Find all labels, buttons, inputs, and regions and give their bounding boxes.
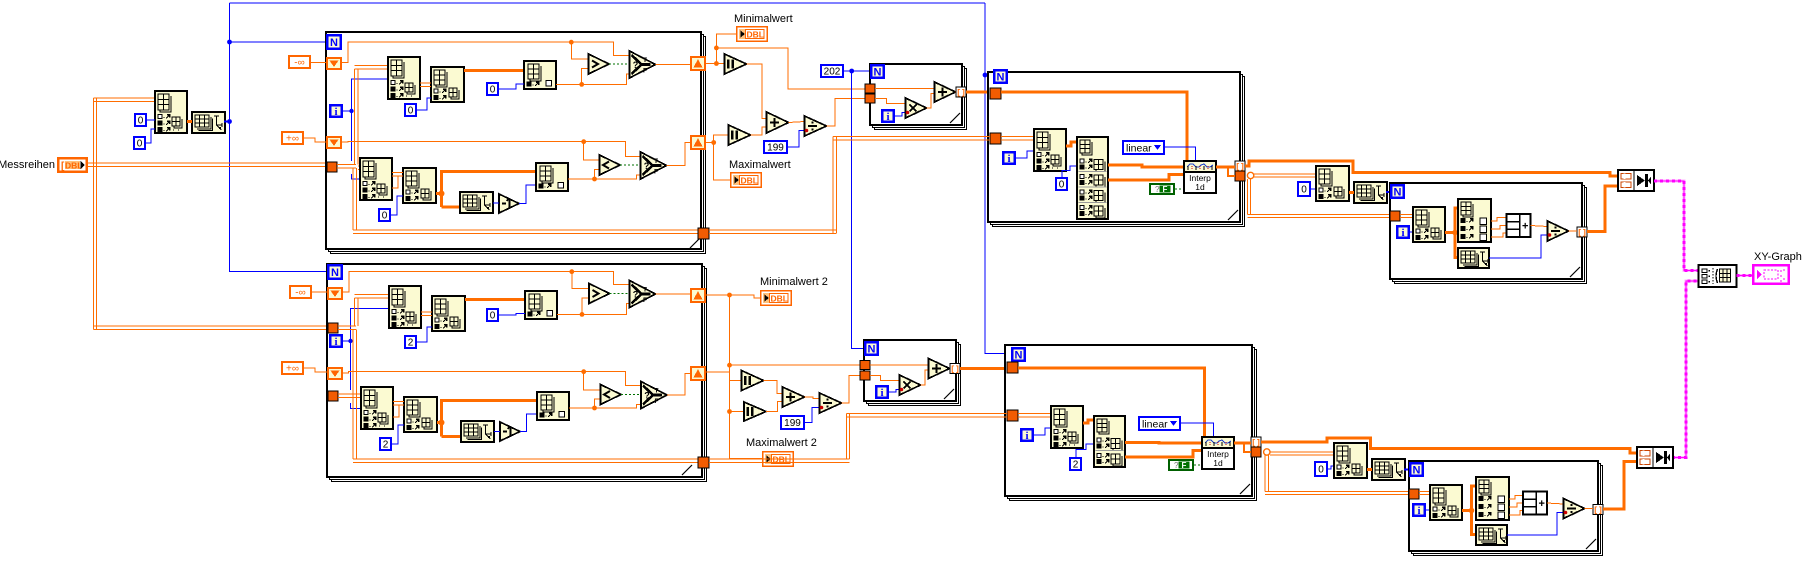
- select node select loop2 max: [641, 382, 667, 409]
- operator greater than loop1: [589, 54, 610, 74]
- wire row to sort 2: [442, 435, 462, 438]
- for-loop frame loop3 (x ramp series 1): [870, 64, 967, 130]
- tunnel loop2 array in2: [328, 391, 338, 401]
- svg-text:N: N: [868, 344, 876, 356]
- operator multiply loop3: [906, 98, 927, 118]
- label Maximalwert: [729, 159, 791, 171]
- svg-text:0: 0: [1318, 465, 1324, 476]
- label XY-Graph: [1754, 251, 1802, 263]
- loop count terminal N loop5: [1390, 184, 1405, 199]
- svg-text:i: i: [1417, 505, 1420, 517]
- wire 0 to idx5b: [1328, 466, 1334, 469]
- compound arithmetic node compound add loop5: [1507, 214, 1531, 237]
- junction circle loop4 out branch: [1247, 172, 1253, 178]
- wire 0 to index B: [417, 98, 431, 110]
- wire cmp to div: [1531, 226, 1548, 227]
- svg-text:N: N: [1394, 187, 1402, 199]
- operator II min 2: [742, 371, 764, 391]
- wire i loop1 up: [352, 79, 389, 111]
- wire i loop2 up: [351, 309, 390, 342]
- index array node loop1 index array B: [431, 67, 464, 102]
- shift register right loop2 max right: [690, 366, 706, 381]
- wire tf wire: [1175, 188, 1184, 190]
- wire idx5b to size: [1367, 468, 1372, 471]
- enum constant linear (linear): [1122, 140, 1165, 155]
- wire loop3b min wire: [870, 364, 929, 366]
- wire i loop1 down a: [351, 111, 353, 161]
- wire elem to gt 2: [557, 298, 589, 314]
- loop iteration terminal i loop4: [1002, 151, 1016, 165]
- label Minimalwert: [734, 13, 793, 25]
- svg-text:0: 0: [408, 106, 414, 117]
- wire 2 loop4b wire: [1076, 444, 1094, 457]
- numeric constant 2 loop2 row2: [379, 437, 392, 451]
- array size/sort node pre array size: [192, 112, 225, 133]
- wire 202 to N: [844, 70, 870, 72]
- indexing tunnel loop3 out: [956, 87, 966, 98]
- wire II min out: [747, 64, 767, 119]
- wire add to div 2: [805, 397, 820, 399]
- wire pre index to size: [187, 120, 192, 123]
- wire splitter out2: [1108, 175, 1184, 181]
- tunnel loop3 step in: [865, 94, 875, 103]
- junction loop2 row2 sr: [581, 369, 586, 374]
- svg-text:-∞: -∞: [294, 58, 304, 69]
- loop iteration terminal i loop2: [329, 334, 343, 348]
- tunnel loop4b x in: [1007, 362, 1018, 373]
- for-loop frame loop1 (min/max series 1): [326, 32, 706, 254]
- wire sp out2: [1491, 226, 1507, 230]
- tunnel loop5 in: [1390, 211, 1400, 221]
- wire interp to out2: [1228, 167, 1235, 176]
- wire count into loop4 N: [985, 74, 993, 76]
- wire interp b to out: [1234, 442, 1251, 445]
- wire interp b to out2: [1244, 443, 1251, 452]
- wire spb out2: [1509, 503, 1523, 507]
- wire splitter b out1: [1125, 441, 1202, 444]
- wire size5b to N: [1404, 469, 1409, 471]
- junction 202 node: [849, 69, 854, 74]
- operator divide loop5b: [1564, 499, 1585, 519]
- index array node loop4 splitter: [1077, 137, 1108, 219]
- wire loop5 idx down: [1455, 233, 1458, 258]
- Interp 1d node Interp 1d: [1184, 161, 1216, 193]
- wire sr to lt top 2: [584, 372, 601, 390]
- operator II min: [725, 54, 747, 74]
- index array node loop4 index array: [1034, 129, 1066, 171]
- wire max2 down: [730, 372, 763, 459]
- wire index A2 to B2 (2D array): [421, 312, 432, 316]
- svg-text:+: +: [1539, 498, 1545, 510]
- wire select to SR right: [656, 64, 691, 66]
- shift register left loop2 min: [327, 287, 343, 300]
- svg-text:N: N: [997, 72, 1005, 84]
- numeric constant 199 2: [780, 415, 805, 430]
- junction coerce div5: [1548, 233, 1552, 237]
- wire splitter b out2: [1125, 451, 1202, 458]
- numeric constant 0 row index: [134, 113, 147, 127]
- numeric constant 199: [763, 140, 788, 154]
- wire i loop2 branch: [343, 340, 351, 342]
- wire 0 loop4 wire: [1062, 166, 1077, 177]
- index array node loop5b index: [1430, 485, 1462, 520]
- wire concat2 to bundle (cluster to XY graph): [1672, 281, 1699, 458]
- select node select loop1 min: [630, 51, 656, 78]
- svg-text:T: T: [643, 287, 647, 294]
- wire 0 to idx5: [1311, 188, 1316, 190]
- svg-text:-∞: -∞: [295, 288, 305, 299]
- wire max out: [706, 142, 714, 144]
- shift register left loop2 max: [327, 367, 343, 380]
- svg-text:Minimalwert 2: Minimalwert 2: [760, 276, 828, 288]
- numeric constant 0 loop1 elem: [486, 82, 499, 96]
- svg-text:2: 2: [383, 440, 389, 451]
- loop iteration terminal i loop5: [1396, 225, 1410, 239]
- wire +inf2 to SR: [304, 368, 327, 372]
- wire 0 to index E: [391, 196, 403, 215]
- loop corner fold loop3b: [944, 389, 954, 399]
- index array node loop1 index array F: [536, 163, 568, 191]
- svg-text:0: 0: [137, 139, 143, 150]
- svg-text:1d: 1d: [1213, 458, 1223, 468]
- svg-text:[]: []: [956, 89, 966, 98]
- wire min2 out: [706, 294, 730, 296]
- wire elem2 to select f 2: [595, 405, 642, 409]
- loop iteration terminal i loop4b: [1020, 428, 1034, 442]
- loop corner fold loop4: [1228, 210, 1238, 220]
- loop count terminal N loop5b: [1409, 462, 1424, 477]
- wire select2 to SR right: [667, 143, 691, 166]
- wire loop2 min SR feed: [343, 272, 630, 292]
- interleave/build array node concatenate series 1: [1618, 170, 1654, 191]
- constant -inf: [288, 55, 311, 69]
- wire 2 to index E2: [392, 425, 404, 444]
- tunnel loop2 array out: [698, 457, 709, 468]
- svg-text:?: ?: [633, 60, 639, 70]
- wire loop4 data wire (2D array): [1001, 137, 1034, 141]
- svg-text:i: i: [886, 111, 889, 123]
- label Messreihen: [0, 159, 55, 171]
- index array node loop2 index array D: [361, 387, 393, 429]
- wire concat1 to bundle (cluster to XY graph): [1654, 181, 1699, 271]
- wire spb out1: [1509, 496, 1523, 500]
- svg-text:2: 2: [408, 338, 414, 349]
- wire Messreihen down branch (2D array): [94, 98, 331, 330]
- wire 199 to div: [788, 131, 805, 148]
- junction coerce div: [805, 129, 809, 133]
- indexing tunnel loop5 out: [1577, 227, 1587, 238]
- wire loop4 2D out right (2D array): [1254, 174, 1316, 177]
- for-loop frame loop5 (diff series 1): [1390, 183, 1587, 284]
- junction loop1 row1 sr: [569, 40, 574, 45]
- wire splitter out1: [1108, 165, 1184, 167]
- wire index E2 out: [437, 421, 442, 424]
- shift register left loop1 min: [326, 57, 342, 70]
- junction i loop1: [349, 109, 353, 113]
- svg-text:F: F: [654, 169, 658, 176]
- operator divide loop5: [1548, 221, 1569, 241]
- tunnel loop3 min in: [865, 84, 875, 93]
- wire loop1 min SR feed: [342, 42, 630, 62]
- wire top count bus: [230, 2, 986, 4]
- numeric constant 202: [820, 64, 844, 78]
- numeric constant 0 col index: [133, 136, 146, 150]
- wire index E out: [436, 192, 442, 195]
- loop corner fold loop3: [950, 113, 960, 123]
- wire i loop1 branch: [343, 110, 352, 112]
- svg-text:2: 2: [1073, 460, 1079, 471]
- wire sr2 to gt top: [572, 272, 589, 289]
- constant -inf 2: [289, 285, 312, 299]
- tunnel loop1 array out: [698, 228, 709, 239]
- loop count terminal N loop3b: [864, 341, 879, 356]
- wire loop3 min wire: [875, 88, 935, 90]
- svg-text:?: ?: [1155, 185, 1160, 194]
- wire tf 2 wire: [1194, 464, 1202, 466]
- svg-text:N: N: [874, 67, 882, 79]
- svg-text:N: N: [1413, 465, 1421, 477]
- wire loop4 2D out down (2D array): [1247, 179, 1390, 218]
- select node select loop1 max: [641, 152, 667, 179]
- svg-text:?: ?: [644, 161, 650, 171]
- wire loop4b x wire: [1018, 368, 1205, 437]
- junction circle loop4b out branch: [1264, 449, 1270, 455]
- svg-text:F: F: [1163, 185, 1168, 194]
- wire loop4 x wire: [1001, 92, 1187, 161]
- wire mult to add b: [921, 370, 929, 385]
- svg-text:?: ?: [644, 391, 650, 401]
- wire gt to select: [609, 63, 630, 65]
- junction count bus mid: [227, 119, 232, 124]
- index array node loop5 index: [1413, 207, 1445, 242]
- wire row to index F: [442, 172, 537, 208]
- wire count into loop1 N: [230, 41, 327, 43]
- svg-text:N: N: [1015, 350, 1023, 362]
- svg-text:1d: 1d: [1195, 182, 1205, 192]
- wire loop4b 2D out down (2D array): [1265, 455, 1409, 494]
- operator add loop3: [935, 82, 956, 102]
- wire loop3b step wire: [870, 376, 900, 381]
- operator decrement loop1: [499, 194, 519, 213]
- operator add range 2: [783, 387, 805, 407]
- wire select2 to SR right 2: [667, 374, 690, 396]
- wire loop5b to concat: [1603, 462, 1637, 510]
- bundle node bundle XY: [1699, 265, 1737, 287]
- wire 2 to index B2: [417, 327, 432, 342]
- wire select to SR right 2: [656, 293, 691, 295]
- junction coerce div5b: [1564, 511, 1568, 515]
- wire Messreihen main (2D array): [88, 163, 328, 167]
- wire elem to gt: [556, 69, 589, 85]
- wire add to out tunnel: [955, 91, 958, 93]
- svg-text:+: +: [1522, 221, 1528, 233]
- wire cmpb to div: [1547, 503, 1564, 504]
- index array node loop2 index array E: [404, 397, 437, 432]
- loop iteration terminal i loop1: [329, 104, 343, 118]
- Messreihen [DBL] array control terminal Messreihen: [57, 157, 88, 173]
- index array node loop5b pre index: [1334, 443, 1367, 478]
- tunnel loop3b min in: [860, 361, 870, 370]
- svg-text:F: F: [1182, 461, 1187, 470]
- junction loop1 row2 sr: [581, 139, 586, 144]
- array size/sort node loop5 size: [1458, 248, 1489, 268]
- numeric constant 0 loop4: [1055, 177, 1068, 191]
- wire loop3b i wire: [889, 390, 900, 393]
- wire index D to E (2D array): [392, 173, 403, 177]
- wire min2 down: [730, 295, 742, 381]
- numeric constant 2 loop4b: [1069, 457, 1082, 471]
- wire max to dbl: [714, 143, 730, 181]
- wire -inf2 to SR: [312, 291, 327, 293]
- array size/sort node loop2 sort node: [461, 421, 494, 442]
- wire idx5 to size: [1349, 191, 1354, 194]
- wire loop5b inner feed (2D array): [1419, 491, 1430, 494]
- junction row split loop1: [439, 191, 445, 197]
- array size/sort node loop5b size: [1476, 525, 1507, 545]
- svg-text:0: 0: [490, 85, 496, 96]
- wire max to II: [714, 135, 729, 142]
- wire i loop4b wire: [1034, 428, 1051, 435]
- svg-text:Maximalwert 2: Maximalwert 2: [746, 437, 817, 449]
- wire sp out1: [1491, 218, 1507, 222]
- svg-text:[]: []: [1593, 507, 1603, 516]
- numeric constant 0 loop2 elem: [486, 308, 499, 322]
- junction loop2 row1 sr: [569, 269, 574, 274]
- svg-text:?: ?: [1174, 461, 1179, 470]
- shift register left loop1 max: [326, 136, 342, 149]
- wire i loop5b wire: [1426, 509, 1430, 511]
- svg-text:N: N: [330, 37, 338, 49]
- wire index D2 to E2 (2D array): [393, 402, 404, 406]
- wire loop5 to concat: [1587, 186, 1618, 232]
- svg-text:+∞: +∞: [286, 364, 299, 375]
- indexing tunnel loop4b out indexed: [1251, 437, 1261, 448]
- index array node loop2 index array A: [389, 286, 421, 328]
- operator less than loop2: [601, 385, 622, 405]
- junction loop2 row1 elem: [580, 312, 585, 317]
- operator II max 2: [744, 402, 766, 421]
- wire spb out3: [1509, 511, 1523, 516]
- svg-text:Minimalwert: Minimalwert: [734, 13, 793, 25]
- shift register right loop1 min right: [690, 56, 706, 71]
- wire sp out3: [1491, 233, 1507, 237]
- array size/sort node loop5b pre size: [1372, 459, 1405, 480]
- junction min node2: [714, 46, 719, 51]
- boolean constant TF loop4b: [1169, 460, 1193, 470]
- loop corner fold loop5: [1570, 267, 1580, 277]
- junction max node: [711, 140, 716, 145]
- array size/sort node loop1 sort node: [460, 192, 493, 213]
- loop corner fold loop1: [690, 238, 700, 248]
- wire row to index F2: [442, 401, 538, 437]
- wire loop3b to loop4b: [960, 367, 1008, 370]
- wire sort to dec 2: [494, 431, 500, 433]
- svg-text:DBL: DBL: [741, 175, 758, 185]
- svg-text:DBL: DBL: [747, 29, 764, 39]
- svg-text:[]: []: [950, 366, 960, 375]
- wire loop3 step wire: [875, 99, 906, 104]
- wire dec to index F: [519, 185, 536, 204]
- svg-text:0: 0: [138, 116, 144, 127]
- for-loop frame loop4 (interpolation series 1): [988, 72, 1245, 227]
- array size/sort node loop5 pre size: [1354, 182, 1387, 203]
- loop count terminal N loop4b: [1011, 347, 1026, 362]
- svg-text:0: 0: [382, 211, 388, 222]
- loop count terminal N loop4: [993, 69, 1008, 84]
- wire loop4b 2D out right (2D array): [1270, 452, 1334, 455]
- constant +inf: [281, 131, 304, 145]
- wire min2 to dbl: [730, 295, 761, 298]
- index array node loop5b splitter: [1476, 477, 1509, 520]
- operator decrement loop2: [500, 422, 520, 441]
- wire II max out: [751, 127, 767, 135]
- wire wire A loop1 to loop4 (2D array): [709, 137, 990, 234]
- for-loop frame loop2 (min/max series 2): [327, 264, 707, 482]
- svg-text:Maximalwert: Maximalwert: [729, 159, 791, 171]
- index array node loop2 index array C: [525, 291, 557, 319]
- svg-text:DBL: DBL: [65, 161, 82, 171]
- loop count terminal N loop1: [326, 34, 342, 50]
- svg-text:F: F: [643, 68, 647, 75]
- wire wire B loop2 to loop4b (2D array): [709, 414, 1007, 463]
- wire 0 to pre index: [147, 119, 155, 121]
- label Minimalwert 2: [760, 276, 828, 288]
- wire max2 out: [706, 371, 730, 373]
- wire -inf to SR: [311, 62, 326, 64]
- svg-text:i: i: [880, 387, 883, 399]
- wire loop5 idx out: [1445, 208, 1458, 233]
- wire interp to out: [1216, 166, 1235, 169]
- wire wire C interp data: [1245, 161, 1618, 176]
- wire elem2 to select f: [595, 175, 641, 179]
- Interp 1d node Interp 1d series 2: [1202, 437, 1234, 469]
- wire count bus left drop: [230, 3, 327, 272]
- svg-text:linear: linear: [1142, 418, 1168, 430]
- junction min2 node: [727, 293, 732, 298]
- wire linear 2 wire: [1181, 423, 1213, 437]
- svg-text:i: i: [334, 336, 337, 348]
- svg-text:+∞: +∞: [286, 134, 299, 145]
- wire min to dbl: [716, 34, 736, 64]
- operator add range: [767, 112, 789, 133]
- interleave/build array node concatenate series 2: [1637, 447, 1673, 468]
- wire index D jog: [392, 176, 403, 188]
- svg-text:T: T: [643, 57, 647, 64]
- wire size to div: [1489, 235, 1548, 258]
- wire 0 to pre index 2: [146, 129, 155, 143]
- for-loop frame loop5b (diff series 2): [1409, 461, 1603, 556]
- wire elem2 to lt 2: [569, 399, 601, 408]
- wire index B2 out: [465, 298, 525, 301]
- operator add loop3b: [929, 359, 950, 379]
- wire i loop1 down b: [352, 174, 361, 179]
- wire sizeb to div: [1507, 513, 1564, 536]
- wire loop2 max SR feed: [343, 372, 641, 386]
- label Maximalwert 2: [746, 437, 817, 449]
- wire II max2 out: [766, 402, 783, 412]
- index array node loop1 index array E: [403, 168, 436, 203]
- svg-text:0: 0: [490, 311, 496, 322]
- wire bundle to XY (cluster to XY graph): [1737, 274, 1753, 277]
- svg-text:199: 199: [784, 418, 801, 429]
- junction loop5b split: [1469, 508, 1475, 514]
- index array node loop1 index array D: [360, 158, 392, 200]
- svg-text:0: 0: [1301, 185, 1307, 196]
- wire i loop5 wire: [1410, 231, 1413, 233]
- wire gt to select 2: [610, 293, 630, 295]
- index array node loop5 pre index: [1316, 166, 1349, 201]
- operator II max: [729, 125, 751, 145]
